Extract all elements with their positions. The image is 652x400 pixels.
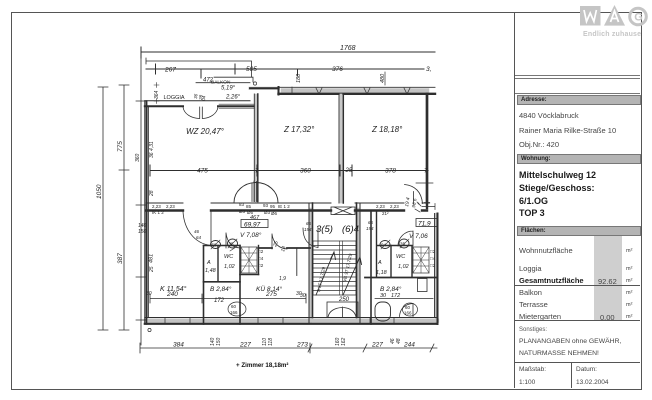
bottom wall window ticks (165, 318, 394, 324)
svg-text:1,02: 1,02 (398, 264, 409, 270)
svg-text:69,97: 69,97 (244, 222, 261, 229)
small circle mark bottom left (148, 328, 151, 331)
svg-text:36 4,31: 36 4,31 (149, 141, 155, 158)
svg-text:WZ 20,47°: WZ 20,47° (186, 127, 225, 136)
svg-text:25: 25 (272, 240, 280, 248)
svg-text:2,23: 2,23 (390, 204, 399, 209)
svg-text:8 5T 17,7/29: 8 5T 17,7/29 (316, 266, 326, 292)
line above Massstab row (515, 362, 640, 363)
dim 467 (250, 215, 260, 221)
svg-text:227: 227 (371, 342, 383, 349)
label V 7,06 right (409, 233, 428, 240)
stair arrow (316, 252, 362, 295)
svg-text:2,26°: 2,26° (225, 95, 241, 101)
value gray column (594, 236, 622, 321)
svg-text:WC: WC (396, 254, 405, 260)
svg-text:93: 93 (263, 203, 269, 208)
loggia door dim cluster (193, 93, 206, 101)
svg-text:481: 481 (149, 254, 155, 263)
svg-text:48: 48 (396, 338, 402, 344)
small dim below right wall (415, 183, 435, 212)
svg-text:96 6: 96 6 (411, 198, 419, 209)
svg-text:275: 275 (265, 291, 277, 298)
address lines (519, 111, 579, 120)
top outer wall (279, 87, 436, 94)
svg-text:467: 467 (250, 215, 260, 221)
door arc corridor to WZ (183, 212, 211, 246)
WZ top wall under loggia (145, 104, 257, 108)
svg-text:387: 387 (117, 253, 124, 264)
left dim line 140/150/481 (135, 47, 155, 345)
svg-text:2,23: 2,23 (152, 204, 161, 209)
svg-text:194: 194 (304, 227, 312, 232)
stair rails (340, 241, 343, 295)
room label KU 8,14 (256, 285, 282, 293)
m2 unit labels (626, 248, 632, 254)
title block double line (515, 75, 640, 76)
svg-text:244: 244 (403, 342, 415, 349)
right outer wall upper (426, 94, 428, 208)
svg-text:83: 83 (239, 202, 245, 207)
label WC 1,02 (224, 254, 235, 270)
svg-text:240: 240 (166, 291, 178, 298)
small wall texts row (152, 202, 399, 216)
door arc to WC block (226, 233, 240, 248)
svg-text:475: 475 (197, 168, 208, 175)
svg-text:384: 384 (173, 342, 184, 349)
room label B 2,84 (210, 285, 232, 293)
upper boundary line (146, 58, 252, 77)
svg-text:162: 162 (341, 337, 347, 346)
chimney circle (234, 181, 278, 203)
shaft side labels (258, 249, 264, 268)
svg-text:30: 30 (146, 291, 152, 297)
svg-text:19 4: 19 4 (404, 197, 412, 208)
door arc into Z18 (405, 185, 423, 205)
room label WZ 20,47 (186, 127, 225, 136)
dim line row 2 (146, 64, 432, 78)
kitchen counter line (296, 248, 298, 276)
closet A walls left (204, 246, 219, 282)
svg-text:64: 64 (196, 235, 202, 240)
svg-text:1050: 1050 (96, 184, 103, 199)
svg-text:WC: WC (224, 254, 233, 260)
lower dim line 240/172/275 (146, 291, 306, 304)
svg-text:V 7,06: V 7,06 (409, 233, 428, 240)
svg-text:150: 150 (138, 229, 147, 235)
top dim line 1768 (141, 45, 435, 58)
svg-text:2,23: 2,23 (166, 204, 175, 209)
right lower door arc (398, 231, 413, 246)
scribble dims at kitchen door (272, 240, 288, 282)
wall K|B (203, 246, 205, 325)
stair treads (313, 241, 356, 295)
circled sill dim right (403, 303, 418, 316)
remark text (519, 338, 621, 345)
svg-text:25: 25 (149, 266, 155, 273)
shaft grid left (241, 247, 257, 273)
svg-text:3,: 3, (426, 66, 432, 73)
svg-text:1,02: 1,02 (224, 264, 235, 270)
annotation + Zimmer 18,18m2 (236, 362, 288, 369)
svg-text:360: 360 (300, 168, 311, 175)
apartment number 3(5) (316, 224, 333, 235)
label V 7,08 (240, 231, 262, 239)
wall V|shaft right (258, 246, 260, 275)
wall-side rotated dims left (149, 141, 155, 273)
right WC walls (390, 246, 412, 278)
svg-text:95: 95 (270, 204, 276, 209)
svg-text:71,9: 71,9 (418, 221, 431, 228)
title block line above Adresse (515, 93, 640, 94)
room label Z 17,32 (283, 125, 315, 134)
svg-text:227: 227 (239, 342, 251, 349)
bottom outer wall (145, 318, 437, 324)
svg-text:376: 376 (332, 66, 343, 73)
right apartment closet wall (377, 211, 392, 278)
dim 364 vertical left of loggia (154, 83, 160, 104)
svg-text:+ Zimmer 18,18m²: + Zimmer 18,18m² (236, 362, 288, 369)
entrance door arc left (303, 228, 318, 248)
svg-text:1768: 1768 (340, 45, 356, 52)
corridor top wall (146, 202, 427, 204)
area table rows (519, 246, 573, 255)
svg-text:Ø3: Ø3 (264, 210, 271, 215)
svg-text:V 7,08°: V 7,08° (240, 231, 262, 239)
window tick marks on top wall (292, 87, 410, 94)
wall below A/WC block (204, 275, 259, 282)
svg-text:60: 60 (405, 305, 411, 310)
svg-text:Ø6: Ø6 (271, 211, 278, 216)
room label K 11,54 (160, 285, 187, 293)
double door arcs on WZ wall (183, 107, 218, 119)
right shaft grid (413, 247, 429, 273)
svg-text:60: 60 (231, 304, 237, 309)
Flaechen header bar (517, 226, 641, 236)
svg-text:5,19°: 5,19° (221, 86, 236, 92)
svg-text:172: 172 (214, 298, 225, 304)
svg-text:B 2,84°: B 2,84° (380, 285, 402, 293)
label A 1,48 (205, 260, 217, 274)
loggia front edge (145, 100, 250, 102)
svg-text:ІK 1 2: ІK 1 2 (152, 210, 164, 215)
Wohnung header bar (517, 154, 641, 164)
svg-text:VB 9T 17,7/29: VB 9T 17,7/29 (342, 253, 353, 283)
right wall cap (425, 202, 430, 204)
scribble circle WC-door right (399, 239, 409, 248)
wohnung bold text (519, 169, 596, 220)
svg-text:30: 30 (300, 293, 306, 299)
left outer wall (145, 101, 149, 324)
svg-text:21²: 21² (382, 211, 389, 216)
wall WZ | Z17 (254, 94, 257, 202)
svg-text:30: 30 (380, 293, 387, 299)
room label Z 18,18 (371, 125, 403, 134)
stairwell left wall (309, 203, 313, 324)
scribble dims at Z18 door (404, 197, 419, 209)
svg-text:118: 118 (268, 338, 274, 346)
boxed area 69,97 (241, 220, 268, 229)
svg-text:180: 180 (296, 73, 302, 83)
circled sill dims left (228, 302, 246, 316)
svg-text:1,48: 1,48 (205, 268, 217, 274)
svg-text:ІE 1 2: ІE 1 2 (278, 204, 290, 209)
svg-text:B 2,84°: B 2,84° (210, 285, 232, 293)
loggia area 2,26 (225, 95, 241, 101)
door arc to kitchen (272, 234, 287, 249)
svg-text:28: 28 (149, 190, 155, 197)
scribble circle A-door left (211, 240, 221, 249)
svg-text:1,18: 1,18 (376, 270, 388, 276)
label B 2,84 right (380, 285, 402, 293)
scribble circle WC-door left (228, 239, 238, 251)
stair dim 250 (300, 293, 350, 303)
bathtub right (375, 302, 391, 321)
rotated bottom dims (210, 337, 402, 346)
Massstab/Datum divider (571, 362, 572, 388)
stairwell right wall (357, 203, 372, 324)
apartment number (6)4 (342, 224, 359, 235)
label A 1,18 right (376, 260, 388, 276)
dim 65/194 left (304, 221, 312, 232)
svg-text:172: 172 (391, 293, 400, 299)
svg-text:25: 25 (345, 168, 353, 174)
LOGGIA label (164, 95, 185, 101)
right lower outer wall (435, 214, 438, 325)
right shaft labels (430, 249, 436, 268)
squiggle 46/64 (194, 229, 202, 240)
label WC right (396, 254, 409, 270)
svg-text:04: 04 (201, 95, 206, 101)
wall pochee gray fills (146, 88, 437, 323)
left dim line 1050 (96, 87, 108, 330)
svg-text:Z 18,18°: Z 18,18° (371, 125, 403, 134)
right dim 30-172 (375, 293, 433, 299)
svg-text:2,23: 2,23 (376, 204, 385, 209)
svg-text:13: 13 (280, 245, 287, 252)
svg-text:273: 273 (296, 342, 308, 349)
threshold rect right (418, 279, 428, 292)
wall B|KU (239, 246, 241, 325)
bath door arc right (400, 304, 414, 317)
svg-text:480: 480 (380, 73, 386, 83)
title block separator vertical line (514, 12, 515, 388)
svg-text:85: 85 (246, 204, 252, 209)
svg-text:505: 505 (246, 66, 257, 73)
svg-text:775: 775 (117, 141, 124, 152)
balcony outline (214, 77, 257, 85)
svg-text:A: A (377, 260, 382, 266)
WAG logo (576, 0, 652, 40)
svg-text:194: 194 (366, 226, 374, 231)
svg-text:3(5): 3(5) (316, 224, 333, 235)
svg-text:A: A (206, 260, 211, 266)
svg-text:LOGGIA: LOGGIA (164, 95, 185, 101)
vertical dim 180 (296, 73, 302, 83)
Adresse header bar (517, 95, 641, 105)
svg-text:35: 35 (229, 242, 235, 247)
stair text rotated (316, 253, 353, 293)
stairwell entry door (331, 207, 355, 215)
boxed area 71,9 (416, 219, 437, 228)
scribble circle A-door right (380, 240, 390, 249)
vertical dim 480 (380, 72, 386, 85)
svg-text:69: 69 (212, 243, 218, 248)
wall above right kitchen row (365, 277, 437, 279)
svg-text:Z 17,32°: Z 17,32° (283, 125, 315, 134)
svg-text:46: 46 (194, 229, 200, 234)
balcony section wall (250, 87, 279, 95)
left dim line 775/387 (117, 85, 129, 330)
WC walls left (218, 245, 240, 247)
logo W square (580, 6, 601, 26)
svg-text:150: 150 (216, 337, 222, 346)
bottom dim line (140, 342, 437, 354)
stair bottom landing (327, 302, 358, 318)
svg-text:Ø3: Ø3 (239, 209, 246, 214)
logo G circle (630, 8, 647, 25)
dim 472 / balkon label (196, 78, 250, 92)
Sonstiges label (519, 327, 547, 333)
wall Z17 | Z18 (339, 94, 343, 203)
svg-text:360: 360 (135, 153, 141, 162)
kitchen top wall (259, 247, 311, 249)
dim 65/194 (366, 220, 374, 231)
svg-text:267: 267 (164, 67, 176, 74)
svg-text:364: 364 (154, 90, 160, 99)
logo A triangle (604, 5, 625, 26)
svg-text:1,9: 1,9 (279, 276, 286, 282)
svg-text:378: 378 (385, 168, 396, 175)
interior dim line 475/360/378 (150, 165, 428, 176)
svg-text:166: 166 (230, 310, 238, 315)
svg-text:166: 166 (404, 311, 412, 316)
